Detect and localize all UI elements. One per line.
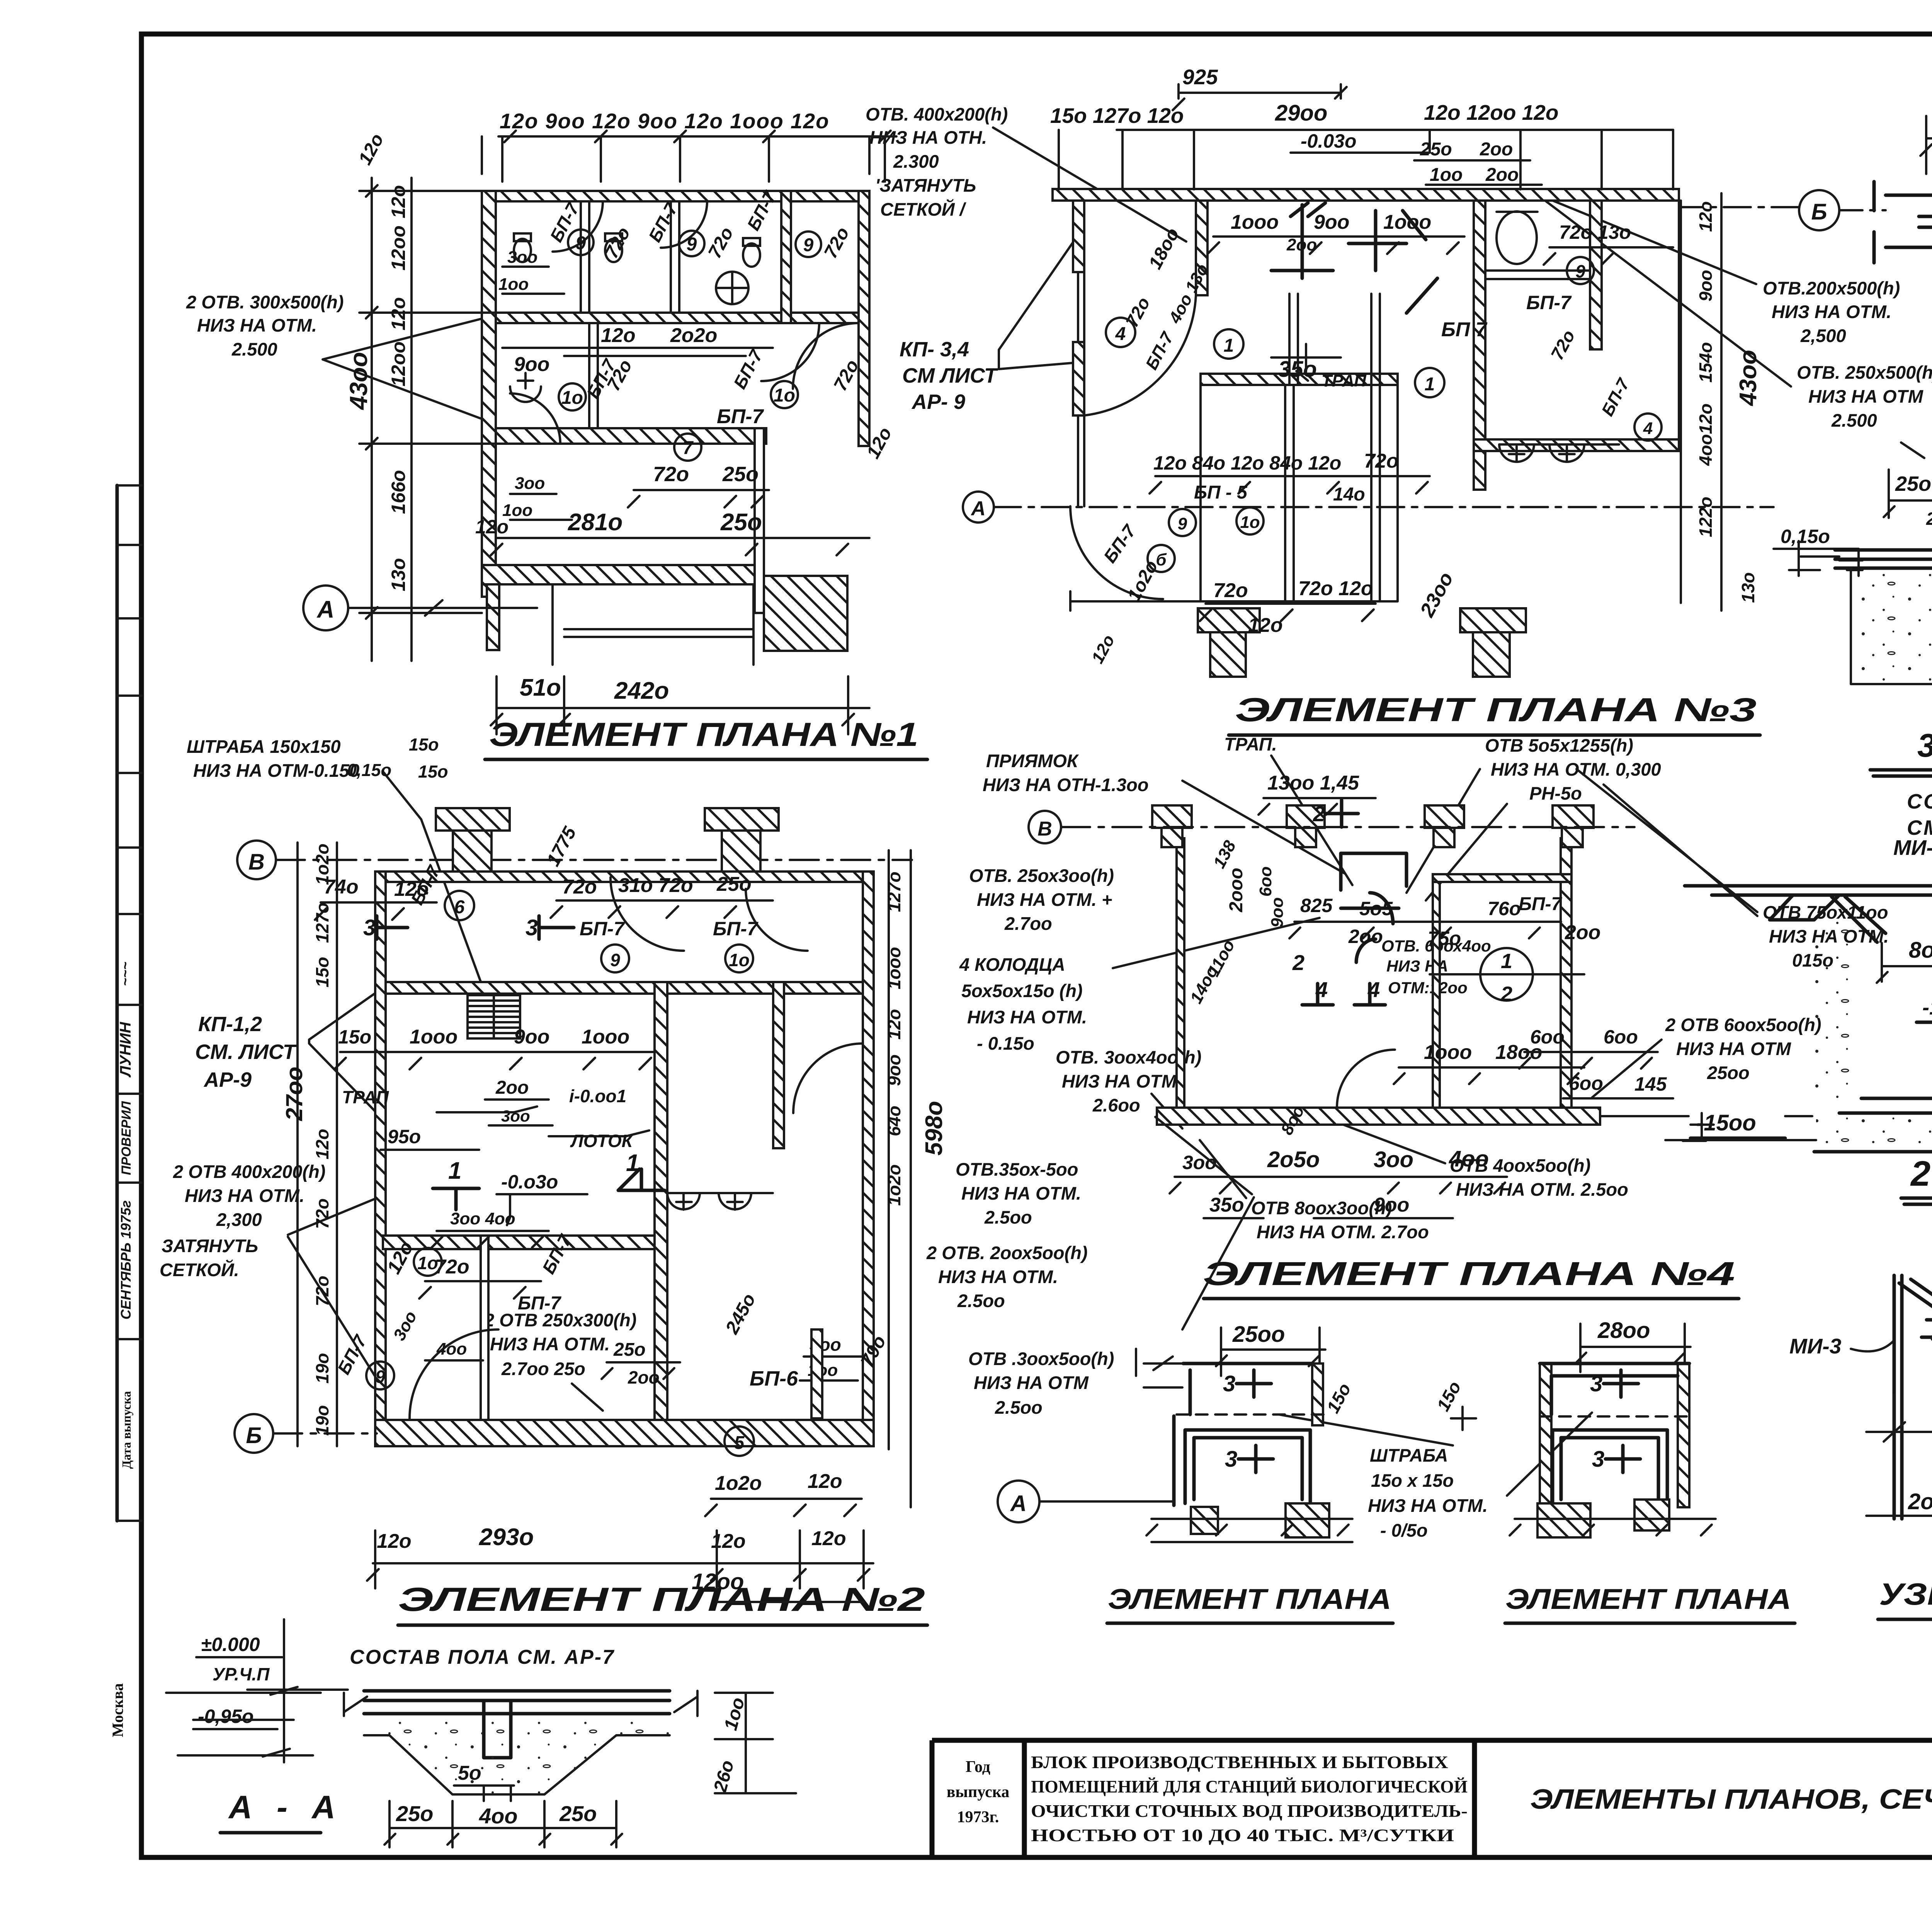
svg-text:ОТВ.35ох-5оо: ОТВ.35ох-5оо xyxy=(956,1159,1078,1180)
svg-text:КП- 3,4: КП- 3,4 xyxy=(900,338,969,361)
svg-text:166о: 166о xyxy=(388,470,409,514)
svg-text:3: 3 xyxy=(1590,1371,1602,1396)
svg-text:Москва: Москва xyxy=(109,1683,126,1737)
svg-text:4: 4 xyxy=(1643,419,1653,438)
svg-text:ОТВ 5о5х1255(h): ОТВ 5о5х1255(h) xyxy=(1485,735,1633,756)
svg-text:25оо: 25оо xyxy=(1232,1322,1285,1347)
svg-text:15о: 15о xyxy=(312,957,332,987)
svg-text:КП-1,2: КП-1,2 xyxy=(198,1013,262,1036)
svg-text:43оо: 43оо xyxy=(345,352,372,410)
svg-text:АР- 9: АР- 9 xyxy=(911,390,965,414)
svg-text:25о: 25о xyxy=(716,873,752,895)
svg-text:1: 1 xyxy=(1425,374,1435,395)
svg-text:25оо: 25оо xyxy=(1707,1062,1750,1083)
svg-text:825: 825 xyxy=(1300,895,1333,916)
svg-text:2.7оо 25о: 2.7оо 25о xyxy=(501,1358,585,1379)
svg-text:НИЗ НА ОТМ.: НИЗ НА ОТМ. xyxy=(1772,301,1891,322)
svg-text:12о: 12о xyxy=(388,185,409,218)
svg-text:1оо: 1оо xyxy=(498,275,529,294)
svg-text:1ооо: 1ооо xyxy=(410,1026,457,1048)
svg-text:281о: 281о xyxy=(568,509,622,536)
svg-text:598о: 598о xyxy=(921,1101,947,1156)
svg-text:1о: 1о xyxy=(729,950,750,970)
svg-text:6оо: 6оо xyxy=(1569,1072,1603,1094)
svg-text:75о: 75о xyxy=(1428,928,1461,949)
svg-text:ОТВ 8оох3оо(h): ОТВ 8оох3оо(h) xyxy=(1251,1198,1392,1218)
svg-text:3оо: 3оо xyxy=(1374,1147,1413,1172)
svg-text:ЗАТЯНУТЬ: ЗАТЯНУТЬ xyxy=(162,1236,258,1256)
svg-text:-15оо: -15оо xyxy=(1696,1110,1756,1135)
svg-text:6: 6 xyxy=(454,897,465,917)
svg-text:25о: 25о xyxy=(559,1801,597,1826)
svg-text:4оо12о: 4оо12о xyxy=(1696,403,1716,466)
svg-text:РН-5о: РН-5о xyxy=(1529,783,1582,803)
svg-text:1: 1 xyxy=(448,1157,461,1184)
svg-text:12о: 12о xyxy=(377,1530,412,1552)
svg-text:ПРОВЕРИЛ: ПРОВЕРИЛ xyxy=(119,1101,134,1175)
svg-text:НИЗ НА ОТМ.: НИЗ НА ОТМ. xyxy=(1368,1495,1488,1516)
svg-text:29оо: 29оо xyxy=(1275,100,1327,126)
svg-text:154о: 154о xyxy=(1696,342,1716,383)
svg-text:72о: 72о xyxy=(312,1198,332,1229)
svg-text:12оо: 12оо xyxy=(388,225,409,271)
svg-text:-0.03о: -0.03о xyxy=(1301,130,1357,152)
svg-text:2.5оо: 2.5оо xyxy=(995,1397,1043,1418)
svg-text:51о: 51о xyxy=(520,674,561,701)
svg-text:25о 15о: 25о 15о xyxy=(1895,472,1932,495)
svg-text:25о: 25о xyxy=(720,509,762,536)
svg-text:НИЗ НА ОТМ: НИЗ НА ОТМ xyxy=(974,1372,1089,1393)
svg-text:А: А xyxy=(316,596,335,623)
svg-text:14о: 14о xyxy=(1333,484,1365,505)
svg-text:Б: Б xyxy=(246,1423,262,1448)
svg-text:б: б xyxy=(1156,550,1167,569)
svg-text:12о: 12о xyxy=(475,516,509,538)
svg-text:2 ОТВ 6оох5оо(h): 2 ОТВ 6оох5оо(h) xyxy=(1665,1015,1821,1035)
svg-text:2о: 2о xyxy=(1926,509,1932,529)
svg-text:БП-7: БП-7 xyxy=(1526,292,1572,313)
svg-text:9: 9 xyxy=(1575,261,1585,281)
svg-text:9: 9 xyxy=(375,1367,385,1387)
svg-text:Год: Год xyxy=(966,1758,990,1776)
svg-text:НИЗ НА ОТМ. 2.5оо: НИЗ НА ОТМ. 2.5оо xyxy=(1456,1179,1628,1200)
svg-text:72о: 72о xyxy=(1213,579,1248,602)
svg-text:ЭЛЕМЕНТ ПЛАНА №3: ЭЛЕМЕНТ ПЛАНА №3 xyxy=(1235,691,1757,729)
svg-text:1о2о: 1о2о xyxy=(312,844,332,885)
svg-text:72о 13о: 72о 13о xyxy=(1559,221,1631,243)
svg-text:МИ-5: МИ-5 xyxy=(1893,836,1932,860)
svg-text:9: 9 xyxy=(803,235,814,255)
svg-text:1оо: 1оо xyxy=(1430,165,1463,185)
svg-text:ОТВ. 400х200(h): ОТВ. 400х200(h) xyxy=(866,104,1008,124)
svg-text:6оо: 6оо xyxy=(1530,1026,1565,1048)
svg-text:СОСТАВ ПОЛА СМ. АР-7: СОСТАВ ПОЛА СМ. АР-7 xyxy=(350,1646,615,1668)
svg-text:3оо: 3оо xyxy=(515,474,545,493)
svg-text:15о: 15о xyxy=(338,1026,371,1048)
svg-text:1о: 1о xyxy=(561,388,583,408)
svg-text:~~~: ~~~ xyxy=(117,962,133,986)
svg-text:БП-7: БП-7 xyxy=(1519,894,1562,914)
svg-text:БП - 5: БП - 5 xyxy=(1194,482,1248,503)
svg-text:76о: 76о xyxy=(1488,898,1521,919)
svg-text:2.5оо: 2.5оо xyxy=(957,1290,1005,1311)
svg-text:ЭЛЕМЕНТ ПЛАНА: ЭЛЕМЕНТ ПЛАНА xyxy=(1505,1583,1791,1615)
svg-text:9оо: 9оо xyxy=(514,1026,549,1048)
svg-text:2: 2 xyxy=(1500,982,1512,1006)
svg-text:ОТМ:12оо: ОТМ:12оо xyxy=(1388,979,1468,997)
svg-text:УР.Ч.П: УР.Ч.П xyxy=(213,1664,270,1684)
svg-text:2.6оо: 2.6оо xyxy=(1092,1095,1140,1115)
svg-text:25о: 25о xyxy=(722,463,759,486)
svg-text:i-0.оо1: i-0.оо1 xyxy=(569,1086,626,1106)
svg-text:2о5о: 2о5о xyxy=(1267,1147,1320,1172)
svg-text:127о: 127о xyxy=(312,902,332,943)
svg-text:925: 925 xyxy=(1182,65,1218,89)
svg-text:СМ. ЛИСТ: СМ. ЛИСТ xyxy=(195,1040,297,1064)
svg-text:1: 1 xyxy=(1224,335,1234,356)
svg-text:НИЗ НА ОТМ.: НИЗ НА ОТМ. xyxy=(490,1334,610,1354)
svg-text:12о: 12о xyxy=(601,324,636,347)
svg-text:2,300: 2,300 xyxy=(216,1209,262,1230)
svg-text:12о 9оо 12о 9оо 12о 1ооо 12: 12о 9оо 12о 9оо 12о 1ооо 12о xyxy=(500,109,830,133)
svg-text:3оо: 3оо xyxy=(507,248,537,267)
svg-text:2оо: 2оо xyxy=(1908,1489,1932,1514)
svg-text:СЕНТЯБРЬ 1975г: СЕНТЯБРЬ 1975г xyxy=(118,1200,134,1320)
svg-text:15о х 15о: 15о х 15о xyxy=(1371,1470,1454,1491)
svg-text:УЗЕЛ „А": УЗЕЛ „А" xyxy=(1879,1577,1932,1611)
svg-text:4 КОЛОДЦА: 4 КОЛОДЦА xyxy=(959,954,1065,975)
svg-text:19о: 19о xyxy=(312,1405,332,1436)
svg-text:±0.000: ±0.000 xyxy=(201,1634,260,1655)
svg-text:1ооо: 1ооо xyxy=(582,1026,629,1048)
svg-text:МИ-3: МИ-3 xyxy=(1789,1334,1841,1358)
svg-text:2 ОТВ 400х200(h): 2 ОТВ 400х200(h) xyxy=(173,1161,325,1182)
svg-text:НИЗ НА ОТМ: НИЗ НА ОТМ xyxy=(1808,386,1923,407)
svg-text:2оо: 2оо xyxy=(1565,921,1600,944)
svg-text:72о: 72о xyxy=(1364,450,1399,472)
svg-text:1973г.: 1973г. xyxy=(957,1808,999,1826)
svg-text:9: 9 xyxy=(1178,514,1187,533)
svg-text:127о: 127о xyxy=(884,872,904,912)
svg-text:НИЗ НА ОТМ.: НИЗ НА ОТМ. xyxy=(1062,1071,1182,1091)
svg-text:0,15о: 0,15о xyxy=(347,760,391,780)
svg-text:4оо: 4оо xyxy=(436,1340,467,1358)
svg-text:В: В xyxy=(1037,818,1052,840)
svg-text:В: В xyxy=(248,849,265,875)
svg-text:2.5оо: 2.5оо xyxy=(984,1207,1032,1227)
svg-text:1о2о: 1о2о xyxy=(884,1164,904,1206)
svg-text:293о: 293о xyxy=(479,1524,534,1551)
svg-text:2оо: 2оо xyxy=(1485,165,1519,185)
svg-text:1: 1 xyxy=(1501,950,1512,973)
svg-text:2.7оо: 2.7оо xyxy=(1004,913,1052,934)
svg-text:19о: 19о xyxy=(312,1353,332,1384)
svg-text:2оо: 2оо xyxy=(495,1077,529,1098)
svg-text:12о: 12о xyxy=(884,1009,904,1040)
svg-text:72о: 72о xyxy=(312,1276,332,1306)
svg-text:5о: 5о xyxy=(458,1762,481,1784)
svg-text:ТРАП: ТРАП xyxy=(342,1087,389,1107)
svg-text:БП-7: БП-7 xyxy=(717,405,764,428)
svg-text:3: 3 xyxy=(1225,1447,1237,1472)
svg-text:ОТВ. 250х500(h): ОТВ. 250х500(h) xyxy=(1797,362,1932,383)
svg-text:3: 3 xyxy=(1223,1371,1235,1396)
svg-text:1ооо: 1ооо xyxy=(884,947,904,989)
svg-text:Б: Б xyxy=(1811,199,1827,225)
svg-text:ТРАП.: ТРАП. xyxy=(1224,734,1277,754)
svg-text:ЭЛЕМЕНТ ПЛАНА: ЭЛЕМЕНТ ПЛАНА xyxy=(1108,1583,1391,1615)
svg-text:3: 3 xyxy=(1592,1447,1604,1472)
svg-text:9оо: 9оо xyxy=(1268,897,1287,928)
svg-text:НИЗ НА ОТМ: НИЗ НА ОТМ xyxy=(1676,1038,1791,1059)
svg-text:9: 9 xyxy=(576,233,586,254)
svg-text:2о2о: 2о2о xyxy=(670,324,717,347)
svg-text:БП 7: БП 7 xyxy=(1441,318,1488,341)
svg-text:2 ОТВ. 2оох5оо(h): 2 ОТВ. 2оох5оо(h) xyxy=(926,1243,1088,1263)
svg-text:2 - 2: 2 - 2 xyxy=(1910,1154,1932,1193)
svg-text:НОСТЬЮ ОТ 10 ДО 40 ТЫС.: НОСТЬЮ ОТ 10 ДО 40 ТЫС. М³/СУТКИ xyxy=(1031,1825,1454,1845)
svg-text:13оо 1,45: 13оо 1,45 xyxy=(1267,772,1359,794)
svg-text:9оо: 9оо xyxy=(1374,1194,1409,1216)
svg-text:9оо: 9оо xyxy=(884,1054,904,1086)
svg-text:1о2о: 1о2о xyxy=(715,1472,762,1495)
svg-text:ШТРАБА 150х150: ШТРАБА 150х150 xyxy=(187,736,341,757)
svg-text:1о: 1о xyxy=(417,1253,438,1273)
svg-text:выпуска: выпуска xyxy=(947,1783,1010,1801)
svg-text:1о: 1о xyxy=(774,385,795,406)
svg-text:ЭЛЕМЕНТ ПЛАНА №1: ЭЛЕМЕНТ ПЛАНА №1 xyxy=(489,716,918,753)
svg-text:ЛУНИН: ЛУНИН xyxy=(117,1021,134,1077)
svg-text:242о: 242о xyxy=(614,677,669,704)
svg-text:72о: 72о xyxy=(562,876,597,898)
svg-text:27оо: 27оо xyxy=(281,1067,307,1121)
svg-text:- 0.15о: - 0.15о xyxy=(977,1033,1034,1054)
svg-text:НИЗ НА ОТМ.: НИЗ НА ОТМ. xyxy=(197,315,317,335)
svg-text:2оо: 2оо xyxy=(1480,139,1513,160)
svg-text:- 0/5о: - 0/5о xyxy=(1380,1520,1428,1540)
svg-text:28оо: 28оо xyxy=(1597,1318,1650,1343)
svg-text:25о: 25о xyxy=(396,1801,434,1826)
svg-text:НИЗ НА ОТМ.: НИЗ НА ОТМ. xyxy=(938,1266,1058,1287)
svg-text:ШТРАБА: ШТРАБА xyxy=(1370,1445,1448,1466)
svg-text:9: 9 xyxy=(610,950,620,970)
svg-text:НИЗ НА ОТМ.: НИЗ НА ОТМ. xyxy=(967,1007,1087,1027)
svg-text:35о: 35о xyxy=(1278,357,1317,382)
svg-text:43оо: 43оо xyxy=(1735,350,1762,407)
svg-text:БЛОК ПРОИЗВОДСТВЕННЫХ И БЫТ: БЛОК ПРОИЗВОДСТВЕННЫХ И БЫТОВЫХ xyxy=(1031,1752,1448,1772)
svg-text:12о: 12о xyxy=(1696,201,1716,232)
svg-text:'ЗАТЯНУТЬ: 'ЗАТЯНУТЬ xyxy=(875,175,976,196)
svg-text:3 - 3: 3 - 3 xyxy=(1917,727,1932,764)
svg-text:ЭЛЕМЕНТЫ ПЛАНОВ, СЕЧЕНИЯ, УЗЕ: ЭЛЕМЕНТЫ ПЛАНОВ, СЕЧЕНИЯ, УЗЕЛ „А" xyxy=(1530,1784,1932,1815)
svg-text:25о: 25о xyxy=(613,1340,646,1360)
svg-text:2.500: 2.500 xyxy=(231,339,277,359)
svg-text:15о: 15о xyxy=(409,735,439,754)
svg-text:15о: 15о xyxy=(418,762,448,781)
svg-text:9: 9 xyxy=(687,234,697,255)
svg-text:4оо: 4оо xyxy=(479,1804,518,1828)
svg-text:ОЧИСТКИ СТОЧНЫХ ВОД ПРОИЗВО: ОЧИСТКИ СТОЧНЫХ ВОД ПРОИЗВОДИТЕЛЬ- xyxy=(1031,1801,1468,1821)
svg-text:АР-9: АР-9 xyxy=(203,1068,252,1091)
svg-text:НИЗ НА ОТМ.: НИЗ НА ОТМ. xyxy=(185,1185,304,1206)
svg-text:-0,95о: -0,95о xyxy=(198,1706,254,1727)
svg-text:5о5: 5о5 xyxy=(1359,898,1393,919)
svg-text:ПОМЕЩЕНИЙ ДЛЯ СТАНЦИЙ БИОЛОГИЧ: ПОМЕЩЕНИЙ ДЛЯ СТАНЦИЙ БИОЛОГИЧЕСКОЙ xyxy=(1031,1777,1468,1796)
svg-text:ОТВ.200х500(h): ОТВ.200х500(h) xyxy=(1763,278,1900,298)
svg-text:ОТВ .3оох5оо(h): ОТВ .3оох5оо(h) xyxy=(968,1348,1114,1369)
svg-text:72о: 72о xyxy=(653,463,689,486)
svg-text:СЕТКОЙ /: СЕТКОЙ / xyxy=(880,199,967,220)
svg-text:4: 4 xyxy=(1115,324,1126,344)
svg-text:145: 145 xyxy=(1634,1073,1667,1095)
svg-text:122о: 122о xyxy=(1696,497,1716,537)
svg-text:13о: 13о xyxy=(1738,572,1758,603)
svg-text:15о 127о 12о: 15о 127о 12о xyxy=(1050,104,1184,128)
svg-text:9оо: 9оо xyxy=(514,353,549,376)
svg-text:2оо: 2оо xyxy=(1348,926,1383,947)
svg-text:9оо: 9оо xyxy=(1314,211,1349,233)
svg-text:5ох5ох15о (h): 5ох5ох15о (h) xyxy=(961,980,1083,1001)
svg-text:БП-7: БП-7 xyxy=(580,918,625,940)
svg-text:5: 5 xyxy=(734,1433,745,1453)
svg-text:3: 3 xyxy=(526,915,538,940)
svg-text:7: 7 xyxy=(683,438,694,458)
svg-text:72о 12о: 72о 12о xyxy=(1298,577,1373,600)
svg-text:0,15о: 0,15о xyxy=(1781,526,1830,547)
svg-text:2ооо: 2ооо xyxy=(1226,868,1247,912)
svg-text:8оо: 8оо xyxy=(1909,938,1932,963)
svg-text:2.300: 2.300 xyxy=(893,151,939,172)
svg-text:НИЗ НА ОТМ. 2.7оо: НИЗ НА ОТМ. 2.7оо xyxy=(1257,1222,1429,1242)
svg-text:2.500: 2.500 xyxy=(1831,410,1877,431)
svg-text:Дата выпуска: Дата выпуска xyxy=(119,1391,133,1469)
svg-text:А: А xyxy=(1010,1491,1027,1516)
svg-text:ЛОТОК: ЛОТОК xyxy=(570,1131,634,1151)
svg-text:-0.о3о: -0.о3о xyxy=(501,1171,558,1193)
svg-text:БП-6: БП-6 xyxy=(750,1367,798,1390)
svg-text:3: 3 xyxy=(363,915,376,940)
svg-text:35о: 35о xyxy=(1209,1194,1244,1216)
svg-text:1о: 1о xyxy=(1240,513,1260,532)
svg-text:13о: 13о xyxy=(388,558,409,591)
svg-text:НИЗ НА ОТМ.: НИЗ НА ОТМ. xyxy=(961,1183,1081,1203)
svg-text:1ооо: 1ооо xyxy=(1231,211,1279,233)
svg-text:6оо: 6оо xyxy=(1256,866,1275,897)
svg-text:2: 2 xyxy=(1292,950,1304,975)
svg-text:НИЗ НА ОТН-1.3оо: НИЗ НА ОТН-1.3оо xyxy=(983,775,1149,795)
svg-text:ТРАП: ТРАП xyxy=(1321,371,1367,390)
svg-text:12о: 12о xyxy=(388,297,409,330)
svg-text:А: А xyxy=(970,497,986,520)
svg-text:2,500: 2,500 xyxy=(1800,325,1846,346)
svg-text:2: 2 xyxy=(1313,802,1325,826)
svg-text:БП-7: БП-7 xyxy=(713,918,759,940)
svg-text:25о: 25о xyxy=(1420,139,1452,160)
svg-text:НИЗ НА ОТМ-0.150: НИЗ НА ОТМ-0.150 xyxy=(193,760,359,781)
svg-text:12о: 12о xyxy=(1248,614,1283,637)
svg-text:3оо 4оо: 3оо 4оо xyxy=(450,1209,515,1228)
svg-text:31о 72о: 31о 72о xyxy=(618,874,693,897)
svg-text:9оо: 9оо xyxy=(1696,270,1716,301)
svg-text:ЭЛЕМЕНТ ПЛАНА №4: ЭЛЕМЕНТ ПЛАНА №4 xyxy=(1203,1255,1735,1292)
svg-text:2 ОТВ. 300х500(h): 2 ОТВ. 300х500(h) xyxy=(186,292,344,312)
svg-text:64о: 64о xyxy=(884,1106,904,1136)
svg-text:СОСТАВ ПОЛА: СОСТАВ ПОЛА xyxy=(1907,790,1932,813)
svg-text:95о: 95о xyxy=(388,1126,421,1147)
svg-text:-1.3оо: -1.3оо xyxy=(1922,996,1932,1019)
svg-text:12о 84о 12о 84о 12о: 12о 84о 12о 84о 12о xyxy=(1153,452,1341,474)
svg-text:12оо: 12оо xyxy=(388,341,409,386)
svg-text:НИЗ НА ОТМ. +: НИЗ НА ОТМ. + xyxy=(977,889,1112,910)
svg-text:ОТВ. 25ох3оо(h): ОТВ. 25ох3оо(h) xyxy=(969,865,1114,886)
svg-text:12оо: 12оо xyxy=(692,1569,744,1594)
svg-text:2оо: 2оо xyxy=(628,1367,660,1387)
svg-text:БП-7: БП-7 xyxy=(518,1293,561,1314)
svg-text:А - А: А - А xyxy=(228,1789,343,1825)
svg-text:4оо: 4оо xyxy=(1449,1146,1489,1171)
svg-text:12о: 12о xyxy=(811,1527,846,1550)
svg-text:СМ ЛИСТ: СМ ЛИСТ xyxy=(902,364,998,387)
svg-text:ПРИЯМОК: ПРИЯМОК xyxy=(986,751,1079,771)
svg-text:6оо: 6оо xyxy=(1604,1026,1638,1048)
svg-text:12о: 12о xyxy=(808,1470,842,1493)
svg-text:СЕТКОЙ.: СЕТКОЙ. xyxy=(160,1260,239,1280)
svg-text:12о: 12о xyxy=(312,1129,332,1159)
svg-text:1ооо: 1ооо xyxy=(1424,1041,1472,1064)
svg-text:12о 12оо 12о: 12о 12оо 12о xyxy=(1424,100,1558,124)
svg-text:ЭЛЕМЕНТ ПЛАНА №2: ЭЛЕМЕНТ ПЛАНА №2 xyxy=(398,1581,925,1618)
